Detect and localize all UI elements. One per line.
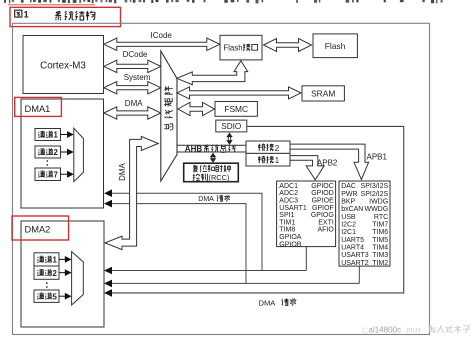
svg-text:al14800c: al14800c <box>369 326 401 335</box>
arrow bus matrix to SRAM <box>177 87 301 99</box>
svg-text:DMA1: DMA1 <box>25 104 51 114</box>
box 通道7 (DMA1) <box>35 168 61 181</box>
svg-text:USART3: USART3 <box>341 252 369 259</box>
svg-text:1: 1 <box>275 156 280 165</box>
dots DMA1 <box>46 160 48 162</box>
svg-text:RTC: RTC <box>374 214 388 221</box>
box APB1 peripherals <box>339 181 390 266</box>
svg-text:TIM2: TIM2 <box>372 260 388 267</box>
svg-text:DAC: DAC <box>341 183 356 190</box>
arrow ICode <box>104 38 220 50</box>
bus matrix vertical label 总线矩阵 (rotated, reads bottom-up) <box>164 86 172 94</box>
arrow DCode <box>104 60 161 72</box>
box 桥接2 <box>246 141 290 153</box>
svg-text:AFIO: AFIO <box>317 227 334 234</box>
title 图1 <box>15 10 22 17</box>
svg-text:2: 2 <box>54 148 59 157</box>
wire APB2 down to DMA2 line1 <box>111 247 307 271</box>
svg-text:AHB: AHB <box>185 145 203 154</box>
svg-text:GPIOG: GPIOG <box>311 212 334 219</box>
bus matrix parallelogram <box>161 51 177 181</box>
svg-text:TIM8: TIM8 <box>279 227 295 234</box>
svg-text:DMA: DMA <box>198 196 214 203</box>
thick DMA arrow bus matrix to DMA2 <box>105 136 158 249</box>
svg-text:SPI3/I2S: SPI3/I2S <box>361 183 389 190</box>
double arrow SDIO-AHB <box>226 133 232 138</box>
arrow System <box>104 82 161 94</box>
svg-text:ICode: ICode <box>151 31 173 40</box>
red highlight box: DMA2 <box>12 216 69 240</box>
box DMA1 <box>21 99 104 208</box>
svg-text:TIM1: TIM1 <box>279 219 295 226</box>
svg-text:TIM7: TIM7 <box>372 222 388 229</box>
svg-text:UART5: UART5 <box>341 237 364 244</box>
arrow DMA horizontal <box>104 107 161 119</box>
double arrow AHB-RCC <box>210 153 216 158</box>
wire DMA1 request line from APB2 <box>111 193 263 270</box>
box DMA2 <box>21 221 104 327</box>
svg-text:GPIOB: GPIOB <box>279 241 302 248</box>
svg-text:Cortex-M3: Cortex-M3 <box>40 61 86 72</box>
wire channel arrow <box>59 295 66 297</box>
svg-text:TIM4: TIM4 <box>372 245 388 252</box>
wire APB1 down to DMA2 line2 <box>111 266 360 283</box>
funnel DMA2 <box>72 252 84 305</box>
svg-text:TIM5: TIM5 <box>372 237 388 244</box>
svg-text:5: 5 <box>53 292 58 301</box>
svg-text:EXTI: EXTI <box>318 219 334 226</box>
box 通道2 (DMA1) <box>35 146 61 158</box>
svg-text:1: 1 <box>53 256 58 265</box>
svg-text:DMA: DMA <box>118 162 127 180</box>
wire SDIO to DMA2 request <box>111 126 404 293</box>
svg-text:USART1: USART1 <box>279 205 307 212</box>
box APB2 peripherals <box>277 181 336 247</box>
svg-text:Flash: Flash <box>224 43 243 52</box>
arrow bus matrix to FSMC <box>178 102 215 115</box>
wire bridge1 to APB2 funnel <box>290 156 324 180</box>
svg-text:I2C2: I2C2 <box>341 222 356 229</box>
svg-text:UART4: UART4 <box>341 245 364 252</box>
dots DMA2 <box>46 282 48 284</box>
svg-text:TIM3: TIM3 <box>372 252 388 259</box>
box 通道2 (DMA2) <box>34 266 59 279</box>
wire channel arrow <box>59 272 66 274</box>
svg-text:inux: inux <box>407 326 422 335</box>
box Flash <box>313 34 357 58</box>
svg-text:DMA2: DMA2 <box>25 225 51 235</box>
svg-text:I2C1: I2C1 <box>341 229 356 236</box>
svg-text:7: 7 <box>54 170 58 179</box>
clipped text strip at top <box>4 0 6 3</box>
red highlight box: DMA1 <box>15 97 62 116</box>
svg-text:USB: USB <box>341 214 356 221</box>
box Cortex-M3 <box>23 36 104 94</box>
svg-text:SRAM: SRAM <box>311 89 335 99</box>
AHB system bus band <box>177 145 246 152</box>
svg-text:FSMC: FSMC <box>224 104 248 114</box>
svg-text:GPIOD: GPIOD <box>311 190 334 197</box>
svg-text:bxCAN: bxCAN <box>341 206 363 213</box>
funnel DMA1 <box>74 128 84 181</box>
svg-text:GPIOC: GPIOC <box>311 183 334 190</box>
svg-text:1: 1 <box>24 9 29 19</box>
svg-text:SPI1: SPI1 <box>279 212 294 219</box>
svg-text:2: 2 <box>275 144 280 153</box>
svg-text:ADC2: ADC2 <box>279 190 298 197</box>
svg-text:SDIO: SDIO <box>221 122 241 131</box>
box FSMC <box>215 102 257 117</box>
svg-text:GPIOE: GPIOE <box>312 198 335 205</box>
box SRAM <box>302 86 344 101</box>
box SDIO <box>216 120 247 132</box>
title 系统结构 <box>55 11 61 20</box>
svg-text:IWDG: IWDG <box>369 198 388 205</box>
svg-text:1: 1 <box>54 131 59 140</box>
svg-text:APB2: APB2 <box>317 159 338 168</box>
wire DMA1 request line from APB1 <box>111 204 247 284</box>
wire channel arrow <box>59 258 66 260</box>
box 复位和时钟控制(RCC) <box>184 163 239 182</box>
box Flash 接口 <box>220 35 262 60</box>
svg-text:Flash: Flash <box>325 41 346 51</box>
svg-text:ADC1: ADC1 <box>279 183 298 190</box>
wire channel arrow <box>61 134 68 136</box>
svg-text:DCode: DCode <box>123 50 148 59</box>
elbow arrow bus matrix to Flash interface <box>177 61 248 85</box>
wire bridge2 to APB1 funnel <box>290 144 369 180</box>
svg-text:C: C <box>362 326 368 336</box>
svg-text:GPIOA: GPIOA <box>279 234 302 241</box>
svg-text:GPIOF: GPIOF <box>312 205 334 212</box>
svg-text:SPI2/I2S: SPI2/I2S <box>361 191 389 198</box>
svg-text:(RCC): (RCC) <box>209 173 230 182</box>
wire channel arrow <box>61 173 68 175</box>
wire channel arrow <box>61 151 68 153</box>
box 通道1 (DMA2) <box>34 253 59 266</box>
box 通道1 (DMA1) <box>35 129 61 141</box>
svg-text:DMA: DMA <box>125 99 143 108</box>
svg-text:DMA: DMA <box>259 298 277 307</box>
arrowhead into DMA2 (line 3) <box>104 289 112 297</box>
svg-text:PWR: PWR <box>341 191 357 198</box>
svg-text:APB1: APB1 <box>367 152 388 161</box>
arrow Flash接口 to Flash <box>264 39 312 52</box>
svg-text:2: 2 <box>53 269 58 278</box>
svg-text:System: System <box>124 73 151 82</box>
red highlight box: title <box>10 7 121 26</box>
svg-text:ADC3: ADC3 <box>279 198 298 205</box>
svg-text:WWDG: WWDG <box>364 206 388 213</box>
svg-text:USART2: USART2 <box>341 260 369 267</box>
svg-text:TIM6: TIM6 <box>372 229 388 236</box>
box 通道5 (DMA2) <box>34 290 59 302</box>
box 桥接1 <box>246 153 290 166</box>
svg-text:BKP: BKP <box>341 198 355 205</box>
